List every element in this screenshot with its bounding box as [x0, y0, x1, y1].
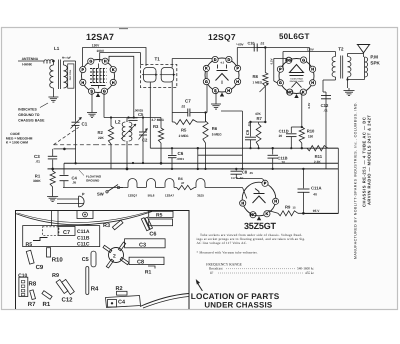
- tube 50L6GT envelope: [279, 59, 314, 94]
- svg-text:C11A: C11A: [311, 186, 321, 191]
- variable capacitor C2: [142, 118, 144, 132]
- svg-text:ARVIN RADIO — MODELS 241T & 24: ARVIN RADIO — MODELS 241T & 242T: [367, 115, 372, 205]
- 50L6 plate wire: [282, 52, 284, 70]
- svg-text:C8: C8: [242, 170, 248, 175]
- T1 wires: [171, 59, 173, 68]
- svg-text:GROUND TO: GROUND TO: [18, 113, 40, 117]
- svg-text:12SQ7: 12SQ7: [208, 32, 236, 42]
- svg-text:C6: C6: [149, 232, 156, 238]
- svg-text:R5: R5: [26, 242, 33, 248]
- svg-text:5 MEG: 5 MEG: [212, 133, 222, 137]
- tube 12SQ7 envelope: [205, 58, 239, 92]
- svg-text:R4: R4: [91, 286, 99, 293]
- wire 12SA7 cathode rail: [109, 56, 134, 117]
- C12 part: [62, 279, 75, 294]
- svg-text:.0001: .0001: [177, 157, 185, 161]
- chassis layout box: [16, 211, 190, 310]
- svg-text:6.5V: 6.5V: [307, 103, 311, 109]
- ground below 12SA7: [91, 110, 93, 113]
- svg-text:R1: R1: [43, 301, 51, 308]
- speaker bracket: [77, 211, 93, 219]
- L1 secondary top wire: [64, 60, 76, 62]
- svg-text:*-60V: *-60V: [236, 42, 244, 46]
- heater string: [63, 187, 106, 189]
- svg-text:G: G: [205, 80, 208, 84]
- svg-text:H: H: [311, 68, 314, 72]
- dashed rect: [42, 227, 59, 236]
- svg-text:.05: .05: [72, 181, 77, 185]
- svg-text:C5: C5: [138, 112, 144, 117]
- svg-text:G: G: [89, 60, 92, 64]
- svg-text:C11C: C11C: [77, 242, 90, 248]
- svg-text:SPK: SPK: [370, 60, 380, 65]
- svg-text:.05: .05: [249, 171, 253, 175]
- svg-text:95 V: 95 V: [313, 209, 320, 213]
- svg-text:R8: R8: [29, 281, 37, 288]
- bus B- upper: [64, 162, 338, 164]
- svg-text:R7: R7: [28, 301, 36, 308]
- svg-text:C3: C3: [139, 242, 146, 248]
- svg-text:R1: R1: [145, 270, 152, 276]
- svg-text:CHASSIS BASE: CHASSIS BASE: [18, 119, 45, 123]
- svg-text:G: G: [302, 58, 305, 62]
- svg-text:C1: C1: [82, 122, 88, 127]
- junction node: [63, 148, 66, 151]
- svg-text:R1: R1: [35, 174, 41, 179]
- svg-text:D: D: [228, 58, 231, 62]
- wire secondary to C1: [75, 61, 77, 119]
- svg-text:R10: R10: [307, 129, 315, 134]
- svg-text:R6: R6: [212, 126, 218, 131]
- wire 12SQ7 plate up: [237, 47, 254, 49]
- svg-text:12SQ7: 12SQ7: [128, 194, 138, 198]
- svg-text:C7: C7: [63, 230, 70, 236]
- svg-text:ANTENNA: ANTENNA: [22, 57, 39, 61]
- svg-text:35Z5: 35Z5: [197, 194, 204, 198]
- svg-text:C6: C6: [178, 151, 184, 156]
- svg-text:R8: R8: [253, 74, 259, 79]
- svg-text:GROUND: GROUND: [86, 179, 100, 183]
- svg-text:R5: R5: [181, 128, 187, 133]
- svg-text:C10: C10: [18, 273, 27, 279]
- svg-text:OSC COIL: OSC COIL: [69, 69, 72, 80]
- svg-text:50L6: 50L6: [148, 194, 155, 198]
- svg-text:K: K: [266, 212, 269, 216]
- svg-text:H: H: [104, 60, 107, 64]
- 35Z5 internals: [253, 196, 266, 203]
- svg-text:C10: C10: [248, 42, 255, 46]
- B+ line mid: [150, 147, 338, 149]
- gang dashed link: [54, 144, 141, 146]
- R10 bar: [47, 248, 51, 257]
- second box: [149, 219, 173, 226]
- svg-text:T2: T2: [338, 47, 344, 52]
- svg-text:H: H: [227, 89, 230, 93]
- svg-text:H: H: [311, 81, 314, 85]
- wire 12SA7 cathode to ground: [91, 92, 93, 110]
- svg-text:.02: .02: [181, 104, 186, 108]
- svg-text:15: 15: [293, 206, 297, 210]
- ground below L1: [52, 94, 54, 97]
- svg-text:P.M: P.M: [370, 55, 378, 60]
- ground below T2: [348, 88, 350, 91]
- speaker voice coil: [363, 53, 365, 57]
- svg-text:AC line voltage of 117 Volts A: AC line voltage of 117 Volts AC.: [197, 241, 248, 245]
- svg-text:C9: C9: [245, 129, 250, 135]
- svg-text:35Z5GT: 35Z5GT: [244, 221, 277, 231]
- svg-text:C12: C12: [62, 297, 74, 304]
- svg-text:NC: NC: [250, 213, 256, 217]
- svg-text:* Measured with Vacuum tube vo: * Measured with Vacuum tube voltmeter.: [197, 250, 258, 254]
- wire 12SQ7 cathode ground: [215, 92, 217, 100]
- svg-text:H: H: [236, 80, 239, 84]
- svg-text:1 MEG: 1 MEG: [253, 81, 263, 85]
- 12SA7 internal pentagrid: [98, 64, 100, 69]
- dial shaft lines: [51, 211, 53, 227]
- svg-text:22K: 22K: [98, 136, 105, 140]
- svg-text:2.2K: 2.2K: [314, 160, 321, 164]
- svg-text:.02: .02: [260, 42, 265, 46]
- wire AVC return: [197, 148, 199, 169]
- svg-text:M=.4μF: M=.4μF: [62, 57, 71, 60]
- terminal board rect: [23, 226, 100, 247]
- T2 secondary ground wire: [347, 77, 349, 88]
- ground below R1: [52, 187, 54, 197]
- svg-text:20: 20: [282, 161, 286, 165]
- speaker rim arc: [16, 212, 153, 225]
- svg-text:R9: R9: [285, 205, 291, 210]
- svg-text:R11: R11: [315, 154, 323, 159]
- svg-text:H: H: [274, 200, 277, 204]
- svg-text:C11A: C11A: [77, 229, 90, 235]
- svg-text:.01: .01: [36, 159, 41, 163]
- C8 box: [129, 257, 164, 264]
- svg-text:UNDER CHASSIS: UNDER CHASSIS: [204, 301, 272, 310]
- svg-text:C11B: C11B: [77, 235, 90, 241]
- tube 35Z5GT envelope: [242, 182, 276, 216]
- svg-text:G: G: [279, 81, 282, 85]
- svg-text:NC: NC: [287, 91, 293, 95]
- svg-text:H: H: [112, 81, 115, 85]
- svg-text:330K: 330K: [33, 179, 41, 183]
- coil box label: [68, 64, 74, 88]
- svg-text:R7: R7: [257, 116, 263, 121]
- svg-text:2: 2: [113, 254, 116, 260]
- C3 box: [125, 239, 166, 248]
- ground below 12SQ7: [215, 100, 217, 104]
- svg-text:R5: R5: [156, 213, 163, 219]
- tube 12SA7 envelope: [82, 60, 115, 93]
- harness curve: [140, 294, 189, 307]
- wire 12SQ7 to bus: [241, 111, 243, 169]
- svg-text:CHASSIS RE-251 — 4 TUBE AC — D: CHASSIS RE-251 — 4 TUBE AC — DC: [362, 117, 367, 207]
- svg-text:2 MEG: 2 MEG: [179, 134, 189, 138]
- 50L6 internals: [290, 65, 304, 73]
- svg-text:T1: T1: [155, 57, 161, 62]
- svg-text:P: P: [279, 68, 282, 72]
- R5 box top: [149, 211, 173, 217]
- R7 part: [30, 290, 36, 300]
- svg-text:20: 20: [279, 134, 283, 138]
- 12SQ7 internal triode: [216, 74, 229, 81]
- svg-text:HANK: HANK: [22, 63, 32, 67]
- tuning gang: [109, 248, 124, 263]
- wire K pin 12SQ7: [206, 72, 208, 113]
- wire 50L6 grid: [264, 48, 266, 73]
- svg-text:0.2V: 0.2V: [270, 58, 274, 64]
- heater 35Z5 hump: [196, 179, 205, 188]
- svg-text:130V: 130V: [92, 44, 100, 48]
- svg-text:P: P: [82, 68, 85, 72]
- svg-text:12SA7: 12SA7: [165, 194, 175, 198]
- svg-text:C3: C3: [34, 154, 40, 159]
- svg-text:12SA7: 12SA7: [86, 32, 114, 42]
- svg-text:K: K: [205, 67, 208, 71]
- svg-text:C12: C12: [321, 103, 329, 108]
- svg-text:H: H: [241, 201, 244, 205]
- bus floating ground lower: [48, 168, 339, 170]
- svg-text:C11D: C11D: [279, 129, 289, 134]
- node 12SQ7 output: [264, 121, 266, 123]
- svg-text:117 V. AC: 117 V. AC: [231, 176, 243, 180]
- speaker cone: [358, 45, 370, 53]
- C6 part: [141, 218, 149, 231]
- 50L6 grid wire: [274, 57, 292, 59]
- svg-text:SW: SW: [97, 192, 104, 197]
- svg-text:C7: C7: [185, 99, 191, 104]
- svg-text:K: K: [112, 68, 115, 72]
- svg-text:R2: R2: [98, 130, 104, 135]
- svg-text:R3: R3: [103, 223, 110, 229]
- wire C8 to 35Z5 plate: [236, 178, 262, 180]
- svg-text:47: 47: [181, 181, 185, 185]
- svg-text:455 kc: 455 kc: [305, 271, 315, 275]
- T2 primary bottom down: [335, 77, 337, 80]
- svg-text:.01: .01: [324, 109, 329, 113]
- wire 50L6 cathode: [301, 93, 303, 128]
- svg-text:C9: C9: [36, 264, 44, 271]
- svg-text:IF: IF: [210, 271, 213, 275]
- C4 box: [106, 296, 141, 308]
- svg-text:-4.5: -4.5: [220, 62, 225, 65]
- svg-text:BG: BG: [286, 59, 292, 63]
- capacitor C8 line cap: [235, 169, 237, 171]
- svg-text:K: K: [302, 91, 305, 95]
- C7 box: [58, 226, 75, 235]
- svg-text:K = 1000 OHM: K = 1000 OHM: [6, 141, 28, 145]
- svg-text:100V: 100V: [97, 49, 105, 53]
- svg-text:G: G: [103, 90, 106, 94]
- svg-text:P: P: [264, 182, 267, 186]
- grid rail: [104, 117, 161, 119]
- svg-text:150: 150: [308, 135, 314, 139]
- svg-text:MANUFACTURED BY NOBLITT-SPAR: MANUFACTURED BY NOBLITT-SPARKS INDUSTRIE…: [354, 102, 358, 259]
- svg-text:C2: C2: [142, 138, 148, 143]
- svg-text:H: H: [81, 81, 84, 85]
- C9 part: [26, 250, 34, 264]
- arrow to chassis box: [197, 282, 203, 291]
- svg-text:4.7 MEG: 4.7 MEG: [151, 118, 164, 122]
- svg-text:C4: C4: [118, 300, 126, 306]
- wire 12SA7 plate rail 130V: [83, 48, 146, 69]
- svg-text:50L6GT: 50L6GT: [279, 32, 310, 41]
- variable capacitor C1: [75, 119, 77, 122]
- svg-text:R9: R9: [52, 273, 59, 279]
- svg-text:D: D: [214, 58, 217, 62]
- svg-text:R10: R10: [52, 257, 64, 264]
- border tick: [119, 28, 128, 30]
- 50L6 screen wire: [309, 48, 311, 70]
- svg-text:R3: R3: [153, 124, 159, 129]
- svg-text:C5: C5: [82, 257, 89, 263]
- svg-text:130V: 130V: [307, 48, 314, 52]
- R4 part: [86, 267, 89, 295]
- svg-text:L1: L1: [54, 46, 60, 51]
- svg-text:C8: C8: [137, 260, 144, 266]
- wire 12SA7 screen rail 100V: [100, 53, 141, 65]
- svg-text:L2: L2: [115, 120, 121, 126]
- svg-text:INDICATES: INDICATES: [18, 108, 37, 112]
- svg-text:40: 40: [313, 193, 317, 197]
- bus right drop: [337, 169, 339, 214]
